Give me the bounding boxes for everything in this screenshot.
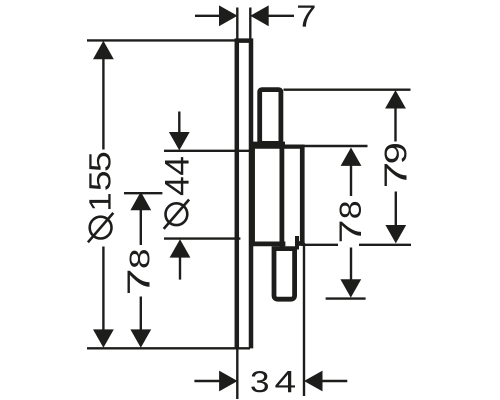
dimension 79: [284, 90, 412, 245]
arrow 78L top: [130, 192, 151, 210]
body notch line: [295, 236, 299, 250]
arrow 34 left: [219, 371, 238, 392]
ext line right: [249, 8, 251, 39]
right ext line: [303, 243, 305, 396]
dimension D155: [87, 40, 250, 348]
left tail: [194, 380, 220, 382]
dim line lower: [350, 248, 352, 280]
arrow 78R top: [341, 148, 362, 166]
label D44: diameter symbol: [164, 200, 189, 229]
top ext line: [164, 150, 254, 152]
label 78 left digit 7: [128, 271, 150, 293]
label 79 digit 7: [385, 164, 407, 186]
label D155 digit 5: [89, 153, 110, 171]
label 78 left digit 8: [130, 250, 150, 267]
arrow 79 bottom: [385, 225, 406, 243]
label D44 digit 4: [165, 177, 189, 195]
bottom ext line: [164, 237, 240, 239]
dimension 78 left: [124, 193, 162, 331]
arrow 78R bottom: [340, 279, 361, 297]
centre tick: [124, 192, 162, 194]
label 34 digit 4: [275, 371, 295, 392]
label D44 digit 4: [165, 157, 189, 175]
arrow 34 right: [304, 371, 323, 392]
arrow D155 bottom: [93, 329, 114, 347]
top ext line: [87, 39, 236, 41]
top ext line: [305, 145, 368, 147]
bottom ext line: [326, 297, 366, 299]
arrow D155 top: [93, 41, 114, 59]
arrow 7 left: [219, 5, 238, 26]
label D155 digit 1: [89, 194, 110, 209]
tail left: [195, 15, 220, 17]
bottom ext line seg2: [359, 244, 411, 246]
arrow 78L bottom: [130, 329, 151, 347]
label 34 digit 3: [251, 371, 268, 392]
left ext line: [236, 349, 238, 399]
top ext line: [284, 88, 411, 90]
dim line lower: [102, 247, 104, 333]
label D155 digit 5: [89, 172, 110, 190]
dim line upper: [102, 57, 104, 150]
arrow 7 right: [250, 5, 269, 26]
right tail: [322, 380, 348, 382]
sleeve right edge continuation: [279, 143, 284, 249]
dimension D44: [164, 112, 254, 280]
dim line lower: [140, 297, 142, 332]
top sleeve block: [260, 90, 281, 144]
top tail: [178, 112, 180, 134]
bottom tail: [179, 257, 181, 280]
dimension 34: [194, 243, 347, 399]
bottom sleeve block: [274, 249, 295, 300]
label 78 right digit 7: [339, 222, 361, 242]
label 7 (plate thickness): [298, 5, 315, 26]
tail right: [269, 15, 295, 17]
dimension 78 right: [305, 146, 368, 299]
arrow D44 top: [169, 132, 190, 150]
label D155: diameter symbol: [88, 213, 113, 242]
bottom ext line seg1: [301, 244, 338, 246]
dim line upper: [350, 165, 352, 197]
label 79 digit 9: [385, 144, 407, 163]
ext line left: [236, 8, 238, 39]
dimension 7 (plate thickness): [195, 8, 294, 39]
dim line upper: [394, 107, 396, 142]
arrow 79 top: [385, 90, 406, 108]
dim line upper: [140, 210, 142, 245]
arrow D44 bottom: [170, 239, 191, 257]
label 78 right digit 8: [339, 202, 361, 218]
wall plate (escutcheon, side view): [237, 41, 251, 349]
bottom ext line: [87, 347, 250, 349]
valve main body: [250, 142, 285, 147]
dim line lower: [395, 192, 397, 228]
